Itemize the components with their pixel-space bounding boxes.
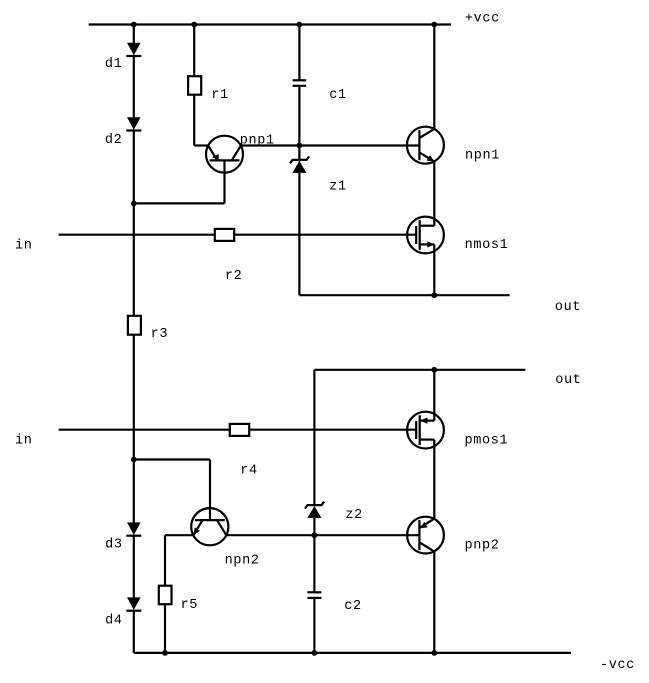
- label in (top): [15, 239, 33, 254]
- label r5: [181, 598, 199, 613]
- svg-text:pmos1: pmos1: [465, 433, 509, 448]
- diode d4: [126, 597, 141, 610]
- svg-text:pnp2: pnp2: [465, 538, 500, 553]
- node -vcc label: [600, 658, 635, 673]
- resistor r3: [128, 316, 141, 335]
- transistor npn2: [191, 508, 228, 545]
- svg-text:d4: d4: [105, 614, 123, 629]
- svg-text:c1: c1: [329, 88, 347, 103]
- label out (bottom): [555, 373, 581, 388]
- wire bottom -vcc rail: [134, 652, 571, 654]
- resistor r2: [215, 229, 234, 241]
- capacitor c2: [307, 592, 321, 598]
- svg-text:d1: d1: [105, 57, 123, 72]
- label nmos1: [465, 238, 509, 253]
- junction z2/base wire: [312, 532, 318, 538]
- wire pmos1 drain to out2: [433, 370, 435, 421]
- label npn1: [465, 148, 500, 163]
- wire out1 line: [299, 294, 509, 296]
- label r2: [225, 269, 243, 284]
- svg-text:r5: r5: [181, 598, 199, 613]
- node +vcc label: [465, 12, 500, 27]
- label pnp1: [240, 134, 275, 149]
- wire in1 line: [59, 234, 417, 236]
- transistor pnp1: [206, 136, 243, 204]
- svg-text:nmos1: nmos1: [465, 238, 509, 253]
- junction out1: [431, 292, 437, 298]
- svg-text:-vcc: -vcc: [600, 658, 635, 673]
- transistor pnp2: [407, 517, 444, 554]
- label d1: [105, 57, 123, 72]
- svg-text:npn2: npn2: [225, 554, 260, 569]
- label pnp2: [465, 538, 500, 553]
- svg-text:+vcc: +vcc: [465, 12, 500, 27]
- label d3: [105, 537, 123, 552]
- wire pnp2 collector to rail: [433, 552, 435, 653]
- label c1: [329, 88, 347, 103]
- junction rail/r1: [191, 22, 197, 28]
- wire npn1 collector to rail: [433, 25, 435, 129]
- svg-text:in: in: [15, 239, 33, 254]
- label in (bottom): [15, 434, 33, 449]
- svg-text:r2: r2: [225, 269, 243, 284]
- svg-text:z2: z2: [345, 508, 363, 523]
- junction rail/pnp2: [431, 650, 437, 656]
- svg-text:d2: d2: [105, 133, 123, 148]
- label pmos1: [465, 433, 509, 448]
- svg-text:r1: r1: [211, 88, 229, 103]
- label z2: [345, 508, 363, 523]
- svg-text:z1: z1: [329, 179, 347, 194]
- svg-text:r3: r3: [151, 327, 169, 342]
- resistor r1: [188, 25, 201, 146]
- label z1: [329, 179, 347, 194]
- wire r1 to pnp1 emitter: [194, 144, 208, 146]
- junction rail/c1: [297, 22, 303, 28]
- wire z2 column: [313, 370, 315, 653]
- mosfet pmos1: [407, 412, 444, 449]
- resistor r5: [159, 586, 172, 653]
- capacitor c1: [293, 25, 307, 146]
- wire pmos1 source to pnp2 emitter: [433, 440, 435, 519]
- label out (top): [555, 300, 581, 315]
- junction rail/c2: [312, 650, 318, 656]
- wire left chain vertical: [133, 25, 135, 653]
- svg-text:out: out: [555, 300, 581, 315]
- wire npn1 emitter to nmos1 drain: [433, 162, 435, 226]
- label npn2: [225, 554, 260, 569]
- svg-text:npn1: npn1: [465, 148, 500, 163]
- junction d2/base: [131, 201, 137, 207]
- junction out2: [431, 367, 437, 373]
- resistor r4: [230, 424, 249, 436]
- svg-text:r4: r4: [240, 463, 258, 478]
- wire pnp1 base to d2 junction: [134, 202, 225, 204]
- diode d1: [126, 43, 141, 56]
- label d2: [105, 133, 123, 148]
- junction rail/d1: [131, 22, 137, 28]
- wire npn2 base: [134, 460, 210, 521]
- wire npn2 collector to pnp2 base: [226, 534, 419, 536]
- svg-text:d3: d3: [105, 537, 123, 552]
- wire in2 line: [59, 429, 417, 431]
- diode d3: [126, 522, 141, 535]
- junction c1/z1 node: [297, 143, 303, 149]
- zener z2: [305, 502, 324, 518]
- mosfet nmos1: [407, 217, 444, 254]
- wire pnp1 collector to npn1 base: [241, 144, 420, 146]
- wire top +vcc rail: [89, 23, 451, 25]
- wire out2 line: [314, 369, 525, 371]
- label r1: [211, 88, 229, 103]
- svg-text:in: in: [15, 434, 33, 449]
- wire npn2 emitter to r5: [165, 535, 193, 586]
- svg-text:out: out: [555, 373, 581, 388]
- transistor npn1: [407, 127, 444, 164]
- zener z1: [290, 146, 309, 296]
- svg-text:c2: c2: [344, 599, 362, 614]
- label c2: [344, 599, 362, 614]
- label r4: [240, 463, 258, 478]
- label r3: [151, 327, 169, 342]
- junction rail/npn1: [431, 22, 437, 28]
- wire nmos1 source to out1: [433, 244, 435, 295]
- junction rail/r5: [162, 650, 168, 656]
- diode d2: [126, 117, 141, 130]
- junction d-chain/npn2 base: [131, 457, 137, 463]
- label d4: [105, 614, 123, 629]
